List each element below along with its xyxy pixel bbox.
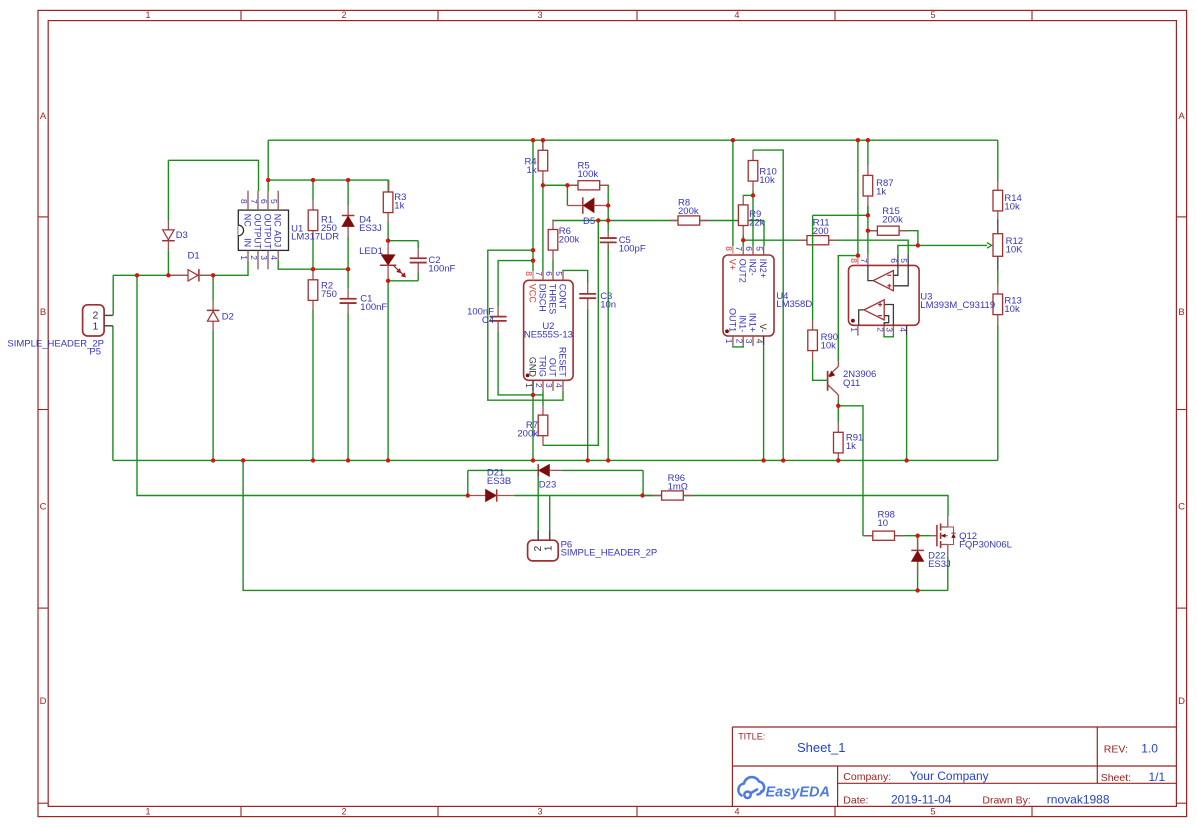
svg-text:IN1+: IN1+ [748, 313, 758, 332]
svg-text:8: 8 [849, 258, 859, 263]
wire C2 bottom to LED [388, 280, 418, 282]
wire U1 pin1 to input row [113, 261, 248, 275]
wire R5 row [543, 184, 578, 186]
wire U3 pin4 column [906, 335, 908, 460]
svg-text:100nF: 100nF [360, 302, 387, 313]
wire right column upper [997, 140, 999, 181]
svg-text:4: 4 [269, 255, 279, 260]
connector P6 SIMPLE_HEADER_2P [528, 540, 559, 561]
svg-text:2019-11-04: 2019-11-04 [891, 792, 952, 806]
svg-text:4: 4 [734, 10, 739, 20]
U2 pin1 marker [526, 374, 530, 378]
svg-text:1k: 1k [394, 201, 404, 212]
svg-text:8: 8 [524, 271, 534, 276]
diode D3 [167, 221, 169, 230]
svg-text:D5: D5 [583, 216, 595, 227]
wire R7 bottom to D5 column riser [543, 221, 598, 446]
junction (348.1,269.2) [346, 267, 350, 271]
svg-text:750: 750 [321, 289, 337, 300]
svg-text:VCC: VCC [528, 284, 538, 304]
junction (388.1,240.7) [386, 239, 390, 243]
svg-text:3: 3 [259, 255, 269, 260]
wire D3 top link to U1 pin7 [168, 160, 258, 191]
svg-text:1: 1 [543, 545, 554, 551]
arrow R12 wiper [987, 243, 992, 249]
svg-text:C: C [40, 502, 47, 513]
resistor R4 [542, 139, 544, 141]
wire left drop column to D21 row [137, 275, 469, 495]
svg-text:ES3J: ES3J [359, 223, 382, 234]
diode D21 [468, 495, 486, 497]
junction (608.2,460.4) [606, 458, 610, 462]
resistor R87 [867, 206, 869, 216]
junction (642.5,495.5) [640, 493, 644, 497]
wire R15 right jog to wiper row [908, 231, 918, 246]
svg-text:5: 5 [930, 10, 935, 20]
wire R87 top column [867, 140, 869, 165]
wire D3 column [167, 160, 169, 221]
svg-text:NC: NC [243, 214, 253, 227]
svg-text:2: 2 [341, 10, 346, 20]
svg-text:7: 7 [249, 199, 259, 204]
svg-text:D23: D23 [539, 480, 556, 491]
U3 internal wiring [868, 265, 873, 280]
wire U3 pin8 column [857, 140, 859, 256]
capacitor C2 [417, 241, 419, 249]
svg-text:10k: 10k [821, 341, 837, 352]
diode D4 [347, 206, 349, 216]
svg-text:ES3J: ES3J [928, 559, 951, 570]
wire Q12 source down [947, 556, 949, 591]
svg-text:1k: 1k [846, 441, 856, 452]
junction (906.6,460.4) [904, 458, 908, 462]
wire top power rail [268, 139, 998, 141]
U4 pin1 marker [725, 329, 729, 333]
svg-text:ADJ: ADJ [273, 230, 283, 247]
svg-text:OUT2: OUT2 [738, 259, 748, 283]
svg-text:Your Company: Your Company [910, 769, 989, 783]
capacitor C4 [497, 303, 499, 307]
junction (743.2,240.2) [741, 238, 745, 242]
svg-text:IN2-: IN2- [748, 259, 758, 276]
svg-text:3: 3 [537, 806, 542, 816]
svg-text:LM393M_C93119: LM393M_C93119 [920, 300, 995, 311]
junction (313,269.2) [311, 267, 315, 271]
junction (917.6,535.7) [915, 534, 919, 538]
svg-text:V-: V- [758, 324, 768, 333]
wire R90 top row to R87 node [813, 214, 868, 216]
transistor Q11 2N3906 [827, 371, 829, 391]
svg-text:200k: 200k [882, 215, 903, 226]
wire D23 row [468, 469, 538, 471]
U3 pins [857, 256, 859, 265]
resistor R14 [997, 180, 999, 190]
regulator U1 LM317LDR body [238, 210, 288, 250]
svg-text:4: 4 [755, 339, 765, 344]
wire R11 right to U3 pin5 [838, 240, 909, 254]
resistor R13 [997, 270, 999, 284]
U3 pin1 marker [851, 319, 855, 323]
wire U2 reset loop outer [488, 250, 563, 400]
wire R96 output to Q12 drain [694, 496, 948, 517]
wire U2 cont jog to C3 [563, 270, 588, 284]
wire R5 right corner to D5 anode [599, 185, 608, 205]
svg-text:REV:: REV: [1104, 744, 1128, 756]
junction (587.7,460.4) [586, 458, 590, 462]
wire U2 pin8 column [532, 140, 534, 271]
svg-text:LED1: LED1 [359, 246, 383, 257]
svg-text:LM317LDR: LM317LDR [291, 232, 339, 243]
resistor R3 [387, 180, 389, 182]
wire U1 adj row [278, 260, 348, 269]
svg-text:GND: GND [528, 357, 538, 378]
svg-text:V+: V+ [727, 259, 737, 270]
svg-text:10n: 10n [600, 300, 616, 311]
svg-text:1k: 1k [876, 186, 886, 197]
svg-text:ES3B: ES3B [487, 476, 511, 487]
diode D2 [212, 300, 214, 310]
svg-text:rnovak1988: rnovak1988 [1047, 792, 1110, 806]
wire D23 branch down [467, 470, 469, 495]
resistor R11 [743, 239, 837, 241]
junction (867.9,140.2) [866, 138, 870, 142]
junction (732.9,140.2) [731, 138, 735, 142]
junction (348.1,460.4) [346, 458, 350, 462]
svg-text:SIMPLE_HEADER_2P: SIMPLE_HEADER_2P [561, 548, 658, 559]
svg-text:B: B [40, 307, 46, 318]
timer U2 NE555S-13 body [524, 280, 574, 380]
svg-text:7: 7 [859, 258, 869, 263]
svg-text:C4: C4 [482, 315, 494, 326]
junction (542.9,140.2) [541, 138, 545, 142]
svg-text:DISCH: DISCH [538, 284, 548, 312]
svg-text:5: 5 [755, 246, 765, 251]
svg-text:5: 5 [899, 258, 909, 263]
diode D1 [168, 274, 188, 276]
wire U4 pin5 drop [763, 221, 765, 247]
svg-text:OUTPUT: OUTPUT [263, 214, 273, 249]
wire R87 bottom to U3 pin7 [867, 206, 869, 255]
capacitor C3 [587, 284, 589, 294]
junction (467.8,495.5) [466, 493, 470, 497]
svg-text:100pF: 100pF [619, 243, 646, 254]
U1 pins [247, 191, 249, 210]
wire LED column lower [387, 281, 389, 461]
svg-text:D3: D3 [176, 230, 188, 241]
LED LED1 [387, 241, 389, 255]
wire R9 top jog [743, 194, 753, 196]
junction (867.9,215.3) [866, 213, 870, 217]
svg-text:1: 1 [145, 806, 150, 816]
resistor R5 [543, 184, 600, 186]
junction (533,250.2) [531, 248, 535, 252]
junction (388.1,280.8) [386, 279, 390, 283]
junction (838.3,460.4) [836, 458, 840, 462]
resistor R98 [863, 535, 931, 537]
capacitor C1 [347, 269, 349, 289]
junction (213.1,275.3) [211, 273, 215, 277]
svg-text:8: 8 [239, 199, 249, 204]
wire U2 trig loop inner C4 [498, 261, 533, 303]
comparator U3 LM393M body [849, 265, 920, 325]
wire bottom return row [243, 460, 948, 590]
wire D21 row right segment [514, 495, 652, 497]
resistor R15 [868, 230, 909, 232]
svg-text:Drawn By:: Drawn By: [982, 794, 1030, 806]
svg-text:200: 200 [813, 226, 829, 237]
svg-text:1: 1 [239, 255, 249, 260]
ruler ticks [240, 10, 242, 20]
wire R4 column to U2 pin7 [542, 140, 544, 150]
svg-text:6: 6 [259, 199, 269, 204]
junction (213.1,460.4) [211, 458, 215, 462]
resistor R7 [542, 391, 544, 406]
junction (137,275.3) [135, 273, 139, 277]
svg-text:THRES: THRES [548, 284, 558, 315]
resistor R2 [312, 268, 314, 271]
svg-text:1: 1 [92, 320, 98, 332]
svg-text:D1: D1 [188, 251, 200, 262]
wire D4 column upper [347, 180, 349, 205]
junction (867.9,230.7) [866, 229, 870, 233]
wire Q11 base from R90 [813, 361, 827, 380]
title block lines [732, 726, 1176, 728]
svg-text:1: 1 [724, 339, 734, 344]
svg-text:D2: D2 [222, 312, 234, 323]
connector P5 SIMPLE_HEADER_2P [83, 305, 105, 336]
potentiometer R12 [997, 220, 999, 234]
wire C5 column [607, 206, 609, 232]
junction (313,180.1) [311, 178, 315, 182]
junction (857.9,255.6) [856, 253, 860, 257]
U4 pin1-2 loop [733, 345, 743, 347]
svg-text:6: 6 [744, 246, 754, 251]
svg-text:A: A [1178, 111, 1185, 122]
wire C3 bottom column [587, 308, 589, 460]
svg-text:Company:: Company: [843, 771, 891, 783]
wire R10-R9 node to U4 pin6 [752, 195, 754, 246]
svg-text:2: 2 [734, 339, 744, 344]
capacitor C5 [607, 231, 609, 238]
svg-text:LM358D: LM358D [776, 299, 812, 310]
wire Q11 collector node [837, 400, 839, 406]
wire LED to C2 top [388, 240, 418, 242]
diode D23 [537, 464, 539, 476]
resistor R1 [312, 180, 314, 200]
resistor R8 [553, 220, 764, 222]
svg-text:1: 1 [849, 327, 859, 332]
wire U3 pin8 node to Q11 emitter [838, 256, 858, 362]
junction (917.6,590.4) [915, 588, 919, 592]
wire D22 column [917, 536, 919, 551]
svg-text:7: 7 [534, 271, 544, 276]
svg-text:100k: 100k [578, 169, 599, 180]
svg-text:200k: 200k [678, 206, 699, 217]
wire R9 bottom to U4 pin7 [742, 236, 744, 247]
resistor R90 [812, 215, 814, 320]
svg-text:10K: 10K [1006, 245, 1024, 256]
wire right column lower [997, 325, 999, 461]
svg-text:2: 2 [534, 383, 544, 388]
junction (763.6,460.4) [761, 458, 765, 462]
wire ground bus [113, 459, 998, 461]
junction (542.9,185.3) [541, 183, 545, 187]
svg-text:Sheet:: Sheet: [1101, 772, 1131, 784]
svg-text:1mΩ: 1mΩ [668, 482, 688, 493]
svg-text:OUT: OUT [548, 358, 558, 378]
U4 pins [732, 246, 734, 255]
svg-text:2: 2 [341, 806, 346, 816]
U3 comparator A [873, 271, 893, 291]
svg-text:TITLE:: TITLE: [738, 732, 765, 742]
junction (838.3,405.8) [836, 404, 840, 408]
svg-text:6: 6 [889, 258, 899, 263]
svg-text:1: 1 [145, 10, 150, 20]
svg-text:Sheet_1: Sheet_1 [797, 740, 845, 755]
svg-text:TRIG: TRIG [538, 355, 548, 377]
wire U1 pin6 column [267, 140, 269, 191]
svg-text:IN2+: IN2+ [758, 259, 768, 278]
svg-text:3: 3 [537, 10, 542, 20]
svg-text:B: B [1178, 307, 1184, 318]
transistor Q12 FQP30N06L [931, 535, 937, 537]
junction (598.3,220.5) [596, 218, 600, 222]
svg-text:2: 2 [533, 545, 544, 551]
svg-text:3: 3 [885, 327, 895, 332]
junction (533,460.4) [531, 458, 535, 462]
svg-text:C: C [1178, 502, 1185, 513]
svg-text:6: 6 [544, 271, 554, 276]
svg-text:NE555S-13: NE555S-13 [524, 329, 573, 340]
resistor R9 [742, 235, 744, 240]
svg-text:EasyEDA: EasyEDA [766, 785, 830, 801]
wire U2 gnd column [532, 391, 534, 461]
wire D5 branch drop [566, 185, 568, 205]
svg-text:OUTPUT: OUTPUT [253, 214, 263, 249]
wire P5 pin2 riser [112, 275, 114, 315]
svg-text:OUT1: OUT1 [727, 308, 737, 332]
svg-text:NC: NC [273, 214, 283, 227]
svg-text:100nF: 100nF [428, 264, 455, 275]
svg-text:CONT: CONT [558, 284, 568, 310]
junction (567.4,185.3) [565, 183, 569, 187]
svg-text:1.0: 1.0 [1141, 742, 1158, 756]
svg-text:IN: IN [243, 238, 253, 247]
wire U3 pin6 drop [898, 245, 918, 254]
svg-text:22k: 22k [749, 218, 765, 229]
svg-text:10: 10 [878, 518, 889, 529]
op-amp U4 LM358D body [723, 255, 774, 336]
wire U1 output row [268, 179, 389, 181]
wire U4 pin8 column [732, 140, 734, 246]
junction (608.2,205.5) [606, 203, 610, 207]
junction (243.1,460.4) [241, 458, 245, 462]
svg-text:10k: 10k [759, 175, 775, 186]
junction (533,260.6) [531, 258, 535, 262]
svg-text:3: 3 [744, 339, 754, 344]
diode D5 [582, 197, 584, 214]
svg-text:10k: 10k [1004, 202, 1020, 213]
wire R3 top drop [388, 180, 390, 192]
wire wiper row to R12 [918, 244, 987, 246]
svg-text:D: D [1178, 696, 1185, 707]
diode D22 [917, 536, 919, 551]
junction (388.1,460.4) [386, 458, 390, 462]
svg-text:4: 4 [734, 806, 739, 816]
U4 pin4 wire to bus [763, 345, 765, 460]
wire P6 pin1 column [549, 496, 551, 531]
wire Q11 node to gate column [838, 406, 863, 536]
junction (533,140.2) [531, 138, 535, 142]
wire D23 corner to R96 node [642, 470, 644, 495]
svg-text:Date:: Date: [843, 794, 868, 806]
svg-text:1k: 1k [527, 165, 537, 176]
junction (313,460.4) [311, 458, 315, 462]
svg-text:FQP30N06L: FQP30N06L [959, 540, 1012, 551]
U3 comparator B [864, 300, 884, 320]
svg-text:RESET: RESET [558, 347, 568, 378]
svg-text:3: 3 [544, 383, 554, 388]
resistor R10 [752, 149, 754, 152]
wire D2 column [212, 275, 214, 300]
svg-text:10k: 10k [1004, 304, 1020, 315]
junction (268.2,180.1) [266, 178, 270, 182]
svg-text:2: 2 [875, 327, 885, 332]
svg-text:5: 5 [554, 271, 564, 276]
svg-text:2: 2 [249, 255, 259, 260]
junction (608.2,220.5) [606, 218, 610, 222]
svg-text:7: 7 [734, 246, 744, 251]
junction (533,394.9) [531, 393, 535, 397]
wire D4 column lower [347, 237, 349, 270]
svg-text:D: D [40, 696, 47, 707]
svg-text:A: A [40, 111, 47, 122]
svg-text:IN1-: IN1- [738, 315, 748, 332]
junction (753,195.4) [751, 193, 755, 197]
junction (168.4,275.3) [166, 273, 170, 277]
U2 pins [532, 271, 534, 280]
svg-text:1: 1 [524, 383, 534, 388]
wire R10 top jog to bus column [753, 150, 783, 460]
wire U3 pins2-3 loop [884, 334, 893, 337]
junction (917.9,245.4) [916, 243, 920, 247]
svg-text:200k: 200k [517, 429, 538, 440]
svg-text:5: 5 [930, 806, 935, 816]
junction (857.9,140.2) [856, 138, 860, 142]
EasyEDA logo [738, 777, 764, 798]
junction (783.2,460.4) [781, 458, 785, 462]
junction (348.1,180.1) [346, 178, 350, 182]
svg-text:4: 4 [554, 383, 564, 388]
svg-text:200k: 200k [559, 235, 580, 246]
wire P5 pin1 drop to bus [112, 326, 114, 461]
svg-text:4: 4 [898, 327, 908, 332]
svg-text:P5: P5 [89, 347, 101, 358]
resistor R96 [643, 495, 695, 497]
svg-text:Q11: Q11 [843, 378, 860, 389]
resistor R6 [552, 260, 554, 271]
svg-text:1/1: 1/1 [1149, 770, 1166, 784]
svg-text:8: 8 [724, 246, 734, 251]
wire P6 pin2 column [537, 470, 539, 530]
resistor R91 [837, 406, 839, 423]
svg-text:5: 5 [269, 199, 279, 204]
